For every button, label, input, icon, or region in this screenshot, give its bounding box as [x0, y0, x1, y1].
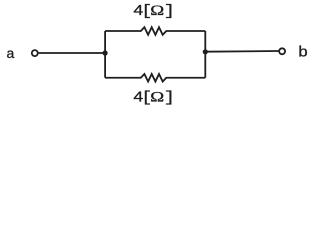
svg-text:Ω: Ω — [150, 2, 164, 19]
svg-text:]: ] — [164, 4, 176, 20]
svg-text:b: b — [298, 44, 308, 61]
svg-text:]: ] — [164, 90, 176, 106]
svg-text:a: a — [7, 45, 15, 61]
svg-text:Ω: Ω — [150, 88, 164, 105]
